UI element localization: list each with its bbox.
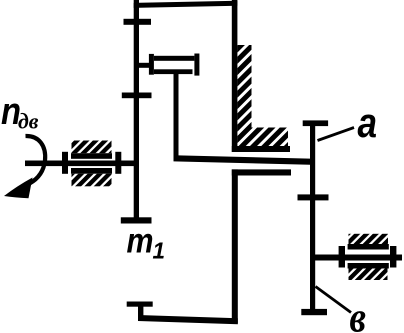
bearing right top hatch: [349, 234, 389, 244]
wire mid vertical down: [232, 169, 238, 323]
right gear top T-bar: [303, 120, 328, 126]
bearing left bottom bar: [71, 168, 112, 174]
bearing left bottom hatch: [72, 174, 112, 187]
coupling top bar: [154, 56, 194, 61]
ground wall bottom horizontal: [232, 146, 290, 152]
ground hatching on wall: [237, 45, 288, 146]
coupling right bar: [194, 54, 199, 76]
bearing right bottom hatch: [349, 269, 388, 281]
svg-text:1: 1: [153, 238, 166, 264]
gear z1 tick lower: [122, 93, 152, 99]
coupling left bar: [149, 54, 154, 75]
gear z1 bottom T-bar: [121, 217, 152, 223]
rotation arrowhead: [4, 178, 33, 199]
svg-text:a: a: [358, 99, 378, 146]
svg-text:m: m: [127, 222, 154, 261]
wire bottom-left stem: [138, 304, 143, 318]
wire bottom horizontal: [138, 315, 238, 324]
input shaft: [25, 161, 137, 167]
bearing left top hatch: [72, 141, 112, 154]
right gear bottom T-bar: [301, 309, 327, 315]
rotation arrow arc n_dv: [26, 136, 46, 184]
svg-text:дв: дв: [18, 109, 39, 134]
input shaft tick right: [115, 152, 121, 174]
bearing right bottom bar: [348, 263, 389, 269]
coupling bottom bar: [154, 69, 193, 74]
gear z1 tick upper: [124, 19, 152, 25]
wire carrier top horizontal: [134, 1, 238, 8]
output shaft tick left: [339, 246, 345, 268]
coupling link from z1 line: [139, 63, 153, 68]
wire carrier right vertical (fixed wall): [232, 0, 238, 152]
callout line to v: [316, 287, 352, 313]
output shaft tick right: [390, 246, 396, 268]
right gear mid tick: [298, 194, 329, 200]
callout line to a: [318, 128, 355, 141]
gear wheel right vertical line: [310, 121, 315, 315]
wire lower horizontal: [232, 169, 291, 175]
input shaft tick left: [62, 152, 68, 174]
bearing right top bar: [348, 244, 389, 250]
bearing left top bar: [71, 153, 112, 159]
svg-text:в: в: [350, 295, 367, 333]
output shaft: [313, 255, 402, 261]
gear wheel z1 vertical line: [134, 0, 139, 223]
wire from coupling down: [174, 74, 179, 161]
wire main horizontal to right gear: [174, 155, 316, 165]
gear bottom-left T-bar: [127, 302, 153, 307]
